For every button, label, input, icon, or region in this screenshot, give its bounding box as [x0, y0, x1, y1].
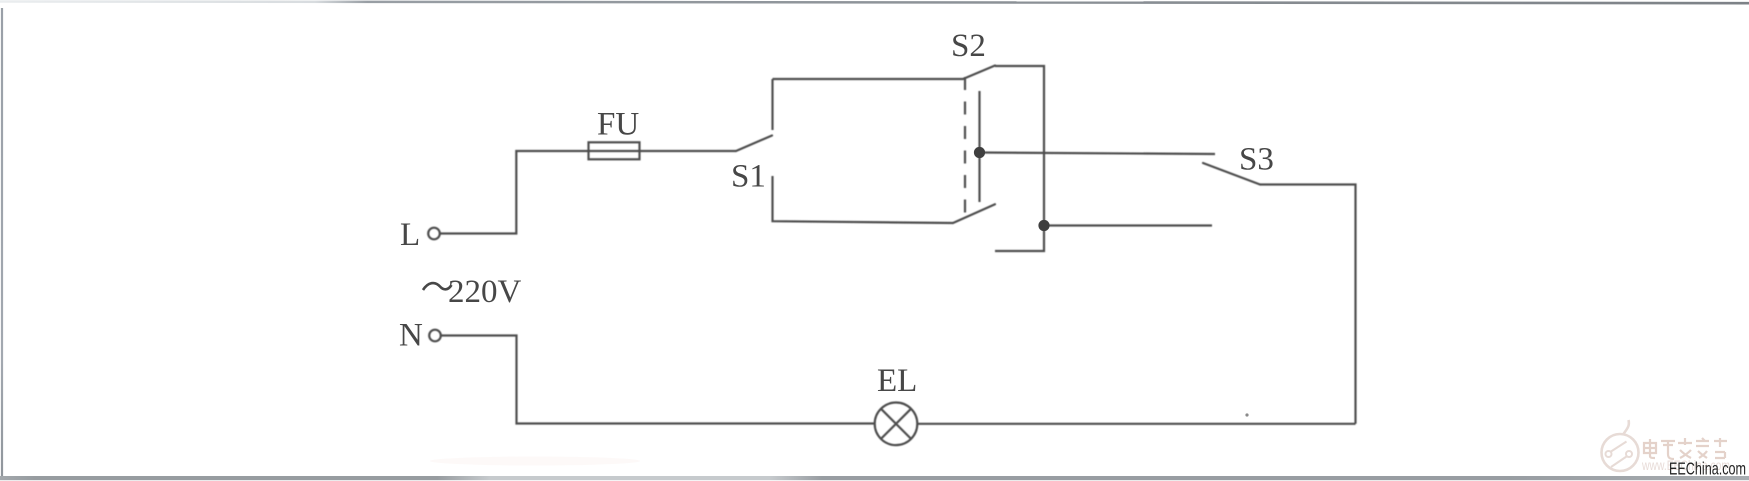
svg-text:S1: S1	[731, 159, 766, 195]
svg-text:L: L	[400, 217, 420, 253]
svg-text:S2: S2	[951, 28, 986, 64]
svg-text:220V: 220V	[448, 274, 522, 310]
svg-text:S3: S3	[1239, 142, 1274, 178]
svg-text:EL: EL	[877, 363, 917, 399]
svg-text:N: N	[399, 318, 423, 354]
svg-text:FU: FU	[597, 107, 639, 143]
svg-text:EEChina.com: EEChina.com	[1669, 459, 1746, 479]
